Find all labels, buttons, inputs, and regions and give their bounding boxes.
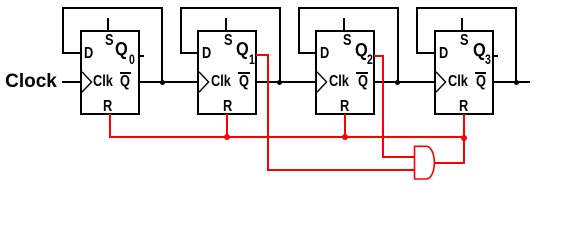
flip-flop U1 box — [80, 30, 140, 115]
wire reset net: R pin of U1 — [109, 114, 111, 138]
pin label S U2 — [224, 33, 233, 49]
pin label Clk U3 — [329, 74, 349, 90]
wire D input U4 — [416, 52, 436, 54]
wire reset net: R pin of U2 — [226, 114, 228, 138]
AND gate U5 (reset logic) — [410, 142, 440, 184]
pin label R U4 — [459, 99, 468, 115]
pin label S U1 — [105, 33, 114, 49]
pin label S U4 — [460, 33, 469, 49]
node Qbar junction dot U1 — [160, 80, 165, 85]
S input stub U2 — [225, 18, 227, 32]
pin label R U3 — [340, 99, 349, 115]
wire reset bus horizontal — [109, 136, 465, 138]
node Qbar junction dot U4 — [514, 80, 519, 85]
clock edge triangle U3 — [317, 71, 330, 94]
wire Q2 to AND gate: stub from U3 — [374, 55, 384, 57]
pin label D U2 — [202, 46, 211, 62]
S input stub U1 — [107, 18, 109, 32]
output label Q3 — [473, 41, 486, 59]
clock edge triangle U1 — [82, 71, 95, 94]
wire D feedback loop U2: right vertical from Qbar node — [279, 7, 281, 83]
output label Q0 — [115, 40, 128, 58]
pin label Clk U1 — [93, 74, 113, 90]
wire D input U3 — [298, 52, 318, 54]
Q0 output stub — [139, 55, 144, 57]
wire D feedback loop U1: right vertical from Qbar node — [161, 7, 163, 83]
wire D feedback loop U2: top horizontal — [180, 7, 281, 9]
Q3 output stub — [493, 55, 498, 57]
wire Q1 to AND gate: bottom horizontal to gate input B — [267, 169, 415, 171]
S input stub U4 — [461, 18, 463, 32]
pin label Qbar U3 — [358, 74, 368, 90]
pin label R U2 — [223, 99, 232, 115]
wire D feedback loop U2: left vertical — [180, 7, 182, 54]
wire D input U1 — [62, 52, 82, 54]
overline of Qbar label U1 — [120, 72, 132, 74]
wire D feedback loop U3: left vertical — [298, 7, 300, 54]
wire Q2 to AND gate: horizontal to gate input A — [382, 156, 415, 158]
output label Q1 — [236, 40, 249, 58]
pin label S U3 — [343, 33, 352, 49]
S input stub U3 — [343, 18, 345, 32]
wire Q1 to AND gate: vertical — [267, 54, 269, 171]
wire D feedback loop U4: left vertical — [416, 7, 418, 54]
wire clock line and Qbar chain (horizontal main line) — [62, 81, 530, 83]
overline of Qbar label U4 — [475, 72, 487, 74]
wire D feedback loop U1: left vertical — [62, 7, 64, 54]
overline of Qbar label U3 — [356, 72, 368, 74]
node reset junction at R of U4 and AND output — [461, 135, 467, 141]
wire D feedback loop U4: top horizontal — [416, 7, 517, 9]
flip-flop U4 box — [434, 30, 494, 115]
label Clock — [5, 72, 57, 91]
wire reset net: R pin of U3 — [344, 114, 346, 138]
wire reset net: R pin of U4 and AND gate output vertical — [463, 114, 465, 164]
wire D input U2 — [180, 52, 200, 54]
node Qbar junction dot U3 — [395, 80, 400, 85]
pin label Clk U4 — [448, 74, 468, 90]
node Qbar junction dot U2 — [277, 80, 282, 85]
node reset junction at R of U3 — [342, 134, 348, 140]
flip-flop U2 box — [197, 30, 257, 115]
clock edge triangle U2 — [199, 71, 212, 94]
node reset junction at R of U2 — [224, 134, 230, 140]
wire Q1 to AND gate: stub from U2 — [256, 54, 269, 56]
flip-flop U3 box — [315, 30, 375, 115]
output label Q2 — [355, 41, 368, 59]
pin label Clk U2 — [211, 74, 231, 90]
wire D feedback loop U3: top horizontal — [298, 7, 399, 9]
wire D feedback loop U4: right vertical from Qbar node — [515, 7, 517, 83]
wire D feedback loop U3: right vertical from Qbar node — [397, 7, 399, 83]
pin label Qbar U4 — [476, 74, 486, 90]
pin label Qbar U2 — [239, 74, 249, 90]
pin label Qbar U1 — [120, 74, 130, 90]
pin label D U4 — [439, 46, 448, 62]
wire AND gate output horizontal — [434, 162, 465, 164]
pin label R U1 — [103, 99, 112, 115]
pin label D U1 — [84, 46, 93, 62]
clock edge triangle U4 — [436, 71, 449, 94]
pin label D U3 — [320, 46, 329, 62]
overline of Qbar label U2 — [238, 72, 250, 74]
wire Q2 to AND gate: vertical — [382, 55, 384, 158]
wire D feedback loop U1: top horizontal — [62, 7, 163, 9]
